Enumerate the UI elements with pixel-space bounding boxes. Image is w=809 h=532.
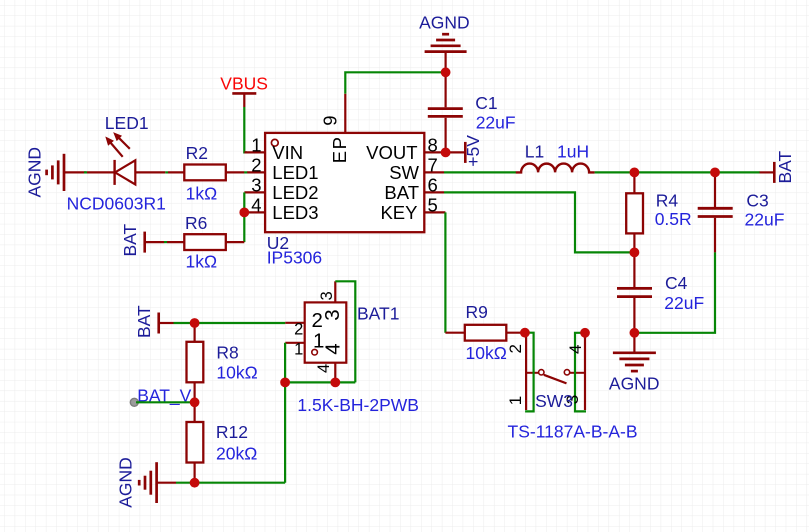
pin number 2 BAT1 inside (312, 309, 323, 332)
svg-text:VOUT: VOUT (366, 142, 417, 163)
pin 6 BAT stub (424, 191, 444, 193)
pin name LED1 (272, 162, 318, 183)
svg-text:4: 4 (315, 364, 333, 373)
pin name KEY (380, 202, 417, 223)
pin number 8 (428, 134, 438, 155)
ground AGND bottom-left symbol (rotated) (139, 462, 176, 503)
svg-text:3: 3 (321, 309, 344, 320)
capacitor C1 (428, 109, 463, 153)
pin name BAT (384, 182, 419, 203)
capacitor C4 (617, 252, 652, 332)
pin 3 LED2 stub (244, 191, 265, 193)
wire C3 bottom to ground row (634, 252, 715, 332)
resistor R2 (168, 165, 244, 181)
svg-text:3: 3 (251, 174, 261, 195)
junction at SW3 pin4 (580, 328, 590, 338)
value NCD0603R1 label (67, 194, 166, 214)
wire R2 to pin2 (244, 171, 247, 173)
svg-text:5: 5 (428, 194, 438, 215)
node BAT label bottom-left (134, 305, 154, 338)
pin number 1 BAT1 outside (294, 340, 303, 358)
svg-text:8: 8 (428, 134, 438, 155)
junction at AGND top / pin9 (441, 67, 451, 77)
connector BAT1 pin1 indicator circle (312, 349, 318, 355)
connector BAT1 body (305, 302, 347, 362)
svg-text:LED1: LED1 (105, 113, 149, 133)
pin 2 stub BAT1 (285, 322, 304, 324)
wire LED1 to R2 (165, 171, 168, 173)
svg-text:3: 3 (318, 291, 336, 300)
pin name LED2 (272, 182, 318, 203)
value 22uF C1 (476, 113, 516, 133)
svg-text:R8: R8 (216, 343, 238, 363)
svg-text:AGND: AGND (419, 13, 470, 33)
pin 9 EP stub (344, 94, 346, 133)
pin number 9 (320, 116, 341, 126)
pin name EP (329, 136, 350, 164)
pin 1 VIN stub (244, 151, 265, 153)
wire BAT to R6 (164, 241, 167, 243)
designator SW3 label (535, 391, 573, 411)
svg-text:R4: R4 (656, 191, 679, 211)
svg-text:AGND: AGND (609, 374, 660, 394)
capacitor C3 (698, 172, 733, 252)
junction at pin4 LED3 (239, 208, 249, 218)
pin 8 VOUT stub (424, 151, 465, 153)
wire SW3 left bracket pin2-pin1 (525, 333, 534, 412)
designator R9 label (466, 302, 488, 322)
wire BAT1 pin1 down to ground (284, 343, 286, 483)
wire AGND row bottom-left (176, 482, 285, 484)
value 1.5K-BH-2PWB label (297, 395, 419, 415)
designator R8 label (216, 343, 238, 363)
value 0.5R label (655, 209, 692, 229)
value IP5306 (267, 247, 322, 267)
svg-text:BAT: BAT (775, 150, 795, 183)
wire pin7 SW to L1 (444, 171, 516, 173)
wire BAT to BAT1 pin2 (174, 322, 286, 324)
svg-text:C3: C3 (746, 191, 768, 211)
svg-text:1uH: 1uH (557, 141, 589, 161)
svg-text:4: 4 (322, 343, 345, 354)
pin number 3 BAT1 outside (318, 291, 336, 300)
svg-text:EP: EP (329, 136, 350, 164)
wire pin9 to AGND (net AGND top) (345, 72, 445, 94)
designator LED1 label (105, 113, 149, 133)
svg-text:1kΩ: 1kΩ (186, 183, 218, 203)
resistor R12 (vertical) (187, 402, 204, 482)
value 22uF C3 label (745, 210, 785, 230)
pin number 3 SW3 (563, 395, 582, 404)
node BAT_V label (137, 385, 191, 406)
node AGND bottom-left label (116, 457, 136, 508)
svg-text:R12: R12 (216, 422, 248, 442)
resistor R4 (vertical) (626, 172, 643, 252)
junction at L1 / R4 node (630, 168, 640, 178)
svg-text:10kΩ: 10kΩ (466, 343, 507, 363)
svg-text:LED3: LED3 (272, 202, 318, 223)
designator R6 label (185, 213, 207, 233)
LED LED1 symbol (87, 134, 165, 185)
node BAT_V unconnected pin (gray) (130, 398, 138, 406)
svg-text:+5V: +5V (463, 135, 483, 167)
value TS-1187A-B-A-B label (508, 422, 638, 442)
resistor R8 (vertical) (187, 323, 204, 402)
junction at C3 top node (710, 168, 720, 178)
designator R12 label (216, 422, 248, 442)
pin 3 stub BAT1 (334, 281, 336, 302)
junction at SW3 pin2 / R9 (520, 328, 530, 338)
pin name LED3 (272, 202, 318, 223)
svg-text:VIN: VIN (272, 142, 303, 163)
power BAT port right (760, 162, 775, 183)
wire VBUS to pin1 (244, 107, 247, 152)
svg-text:NCD0603R1: NCD0603R1 (67, 194, 166, 214)
svg-text:LED2: LED2 (272, 182, 318, 203)
svg-text:AGND: AGND (116, 457, 136, 508)
svg-text:1: 1 (251, 134, 261, 155)
svg-text:10kΩ: 10kΩ (216, 363, 257, 383)
svg-text:1: 1 (506, 396, 525, 405)
svg-text:2: 2 (251, 154, 261, 175)
pin number 5 (428, 194, 438, 215)
wire SW3 right bracket pin4-pin3 (575, 333, 586, 412)
junction at ground riser / BAT1 pin1 net (280, 378, 290, 388)
value 1kOhm R2 label (186, 183, 218, 203)
node AGND left label (24, 147, 44, 198)
wire ground row to BAT1 pin4 and pin3 loop (285, 381, 355, 383)
svg-text:VBUS: VBUS (220, 74, 268, 94)
svg-text:20kΩ: 20kΩ (216, 444, 257, 464)
svg-text:2: 2 (506, 344, 525, 353)
op-amp U2 IP5306 body (265, 133, 424, 232)
svg-text:SW: SW (389, 162, 419, 183)
pin number 4 SW3 (566, 345, 585, 354)
pin number 2 BAT1 outside (294, 320, 303, 338)
wire pin5 KEY down to R9 (444, 212, 446, 332)
svg-text:IP5306: IP5306 (267, 247, 322, 267)
svg-text:2: 2 (294, 320, 303, 338)
designator U2 (267, 233, 289, 253)
pin 2 LED1 stub (247, 171, 265, 173)
junction at ground row C4 (630, 328, 640, 338)
svg-text:SW3: SW3 (535, 391, 573, 411)
svg-text:22uF: 22uF (745, 210, 785, 230)
pin name SW (389, 162, 419, 183)
svg-text:1.5K-BH-2PWB: 1.5K-BH-2PWB (297, 395, 419, 415)
pin number 4 BAT1 inside (322, 343, 345, 354)
transistor SW3 switch posts and contacts (526, 333, 585, 410)
svg-text:KEY: KEY (380, 202, 417, 223)
inductor L1 (516, 164, 595, 173)
svg-text:1: 1 (294, 340, 303, 358)
junction at BAT / R8 top (190, 318, 200, 328)
wire pin3 pin4 to R6 (vertical) (243, 192, 245, 242)
designator C3 label (746, 191, 768, 211)
junction at pin8 / C1 / +5V (441, 148, 451, 158)
svg-text:22uF: 22uF (476, 113, 516, 133)
wire pin6 BAT to R4 bottom (444, 192, 634, 252)
pin number 1 BAT1 inside (313, 329, 324, 352)
value 22uF C4 label (664, 293, 704, 313)
power VBUS port bar (232, 93, 256, 107)
junction at BAT_V / R8-R12 (190, 397, 200, 407)
pin 1 stub BAT1 (285, 342, 304, 344)
value 20kOhm R12 label (216, 444, 257, 464)
designator C1 (475, 93, 497, 113)
junction at AGND row / R12 bottom (190, 478, 200, 488)
svg-text:0.5R: 0.5R (655, 209, 692, 229)
svg-text:C1: C1 (475, 93, 497, 113)
ground AGND top symbol (425, 34, 467, 72)
node BAT label (R6) (120, 223, 140, 256)
resistor R6 (167, 234, 244, 250)
svg-text:6: 6 (428, 174, 438, 195)
svg-text:BAT: BAT (384, 182, 419, 203)
svg-text:TS-1187A-B-A-B: TS-1187A-B-A-B (508, 422, 638, 442)
wire AGND to LED1 (84, 171, 87, 173)
ground AGND bottom symbol (613, 333, 656, 371)
svg-text:22uF: 22uF (664, 293, 704, 313)
resistor R9 (445, 325, 525, 341)
designator R2 label (186, 143, 208, 163)
node BAT label right (775, 150, 795, 183)
pin number 4 BAT1 outside (315, 364, 333, 373)
value 10kOhm R9 label (466, 343, 507, 363)
svg-text:9: 9 (320, 116, 341, 126)
pin number 3 BAT1 inside (321, 309, 344, 320)
svg-text:C4: C4 (665, 273, 688, 293)
pin number 4 (251, 194, 261, 215)
designator C4 label (665, 273, 688, 293)
pin number 3 (251, 174, 261, 195)
value 1uH label (557, 141, 589, 161)
pin number 2 (251, 154, 261, 175)
pin 4 LED3 stub (244, 211, 265, 213)
wire BAT_V to R8-R12 junction (136, 401, 195, 403)
junction at BAT1 pin4 (330, 378, 340, 388)
pin 4 stub BAT1 (334, 363, 336, 383)
designator L1 label (525, 141, 544, 161)
svg-text:R6: R6 (185, 213, 207, 233)
pin number 2 SW3 (506, 344, 525, 353)
svg-text:BAT: BAT (134, 305, 154, 338)
pin number 1 SW3 (506, 396, 525, 405)
svg-text:BAT: BAT (120, 223, 140, 256)
pin name VIN (272, 142, 303, 163)
designator R4 label (656, 191, 679, 211)
node AGND bottom label (609, 374, 660, 394)
pin number 7 (428, 154, 438, 175)
node AGND top label (419, 13, 470, 33)
value 10kOhm R8 label (216, 363, 257, 383)
svg-text:AGND: AGND (24, 147, 44, 198)
power +5V port bar (464, 142, 467, 163)
svg-text:4: 4 (251, 194, 261, 215)
value 1kOhm R6 label (186, 251, 218, 271)
svg-text:1kΩ: 1kΩ (186, 251, 218, 271)
wire L1 to node SW-R4-C3-BAT (595, 171, 760, 173)
node +5V label (463, 135, 483, 167)
svg-text:R9: R9 (466, 302, 488, 322)
pin 7 SW stub (424, 171, 444, 173)
pin 5 KEY stub (424, 211, 445, 213)
pin number 1 (251, 134, 261, 155)
power BAT port (R6) (145, 232, 165, 253)
svg-text:L1: L1 (525, 141, 544, 161)
designator BAT1 label (357, 304, 399, 324)
pin number 6 (428, 174, 438, 195)
svg-text:4: 4 (566, 345, 585, 354)
U2 pin-1 indicator circle (271, 139, 278, 146)
svg-text:LED1: LED1 (272, 162, 318, 183)
junction at R4 bottom node (630, 248, 640, 258)
wire BAT1 pin3 loop (335, 281, 355, 382)
svg-text:7: 7 (428, 154, 438, 175)
node VBUS label (220, 74, 268, 94)
capacitor C1 top stem (445, 72, 447, 107)
svg-text:BAT1: BAT1 (357, 304, 399, 324)
power BAT port bottom-left (159, 313, 174, 334)
svg-text:R2: R2 (186, 143, 208, 163)
ground AGND left symbol (rotated) (47, 154, 87, 191)
pin name VOUT (366, 142, 417, 163)
